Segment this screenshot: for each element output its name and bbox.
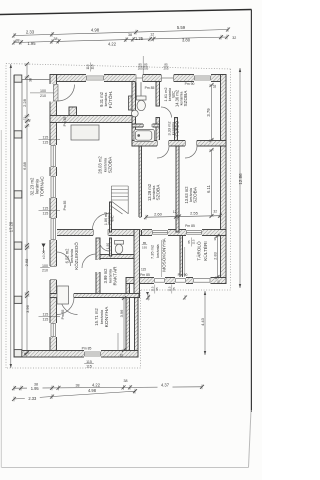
dim 3.79 line: [211, 85, 213, 140]
eaves bottom dotted line: [6, 367, 141, 369]
svg-text:5.59: 5.59: [177, 25, 186, 30]
eaves lower-right dotted line: [141, 289, 231, 291]
top door dim leader line: [142, 56, 144, 75]
svg-text:6.11: 6.11: [206, 184, 211, 193]
svg-text:115: 115: [86, 365, 92, 369]
svg-text:3.80: 3.80: [182, 38, 191, 43]
whitebox 2.33 bottom: [25, 395, 40, 400]
left inner dim line: [26, 64, 28, 353]
raktar west wall door gap: [96, 260, 101, 272]
right dim 12.86 line: [239, 68, 241, 288]
entrance door swing: [57, 252, 71, 266]
svg-text:115: 115: [191, 239, 195, 244]
svg-text:65: 65: [172, 287, 176, 291]
dim 2.83 line: [217, 236, 219, 277]
kitchen pantry cabinet: [57, 286, 69, 304]
eaves right dotted line: [230, 69, 232, 290]
svg-text:1.95: 1.95: [31, 386, 40, 391]
svg-text:3.33 m2: 3.33 m2: [167, 121, 172, 135]
exterior left wall: [50, 75, 57, 358]
porch column 1: [14, 75, 22, 82]
svg-text:115: 115: [43, 140, 49, 144]
south wall window mosokonyha1 gap: [154, 277, 165, 284]
svg-text:kerámia: kerámia: [69, 248, 74, 263]
svg-text:100: 100: [42, 264, 48, 268]
svg-text:14.36 m2: 14.36 m2: [175, 89, 180, 107]
svg-text:17.28: 17.28: [8, 221, 13, 232]
svg-text:Pm 90: Pm 90: [185, 82, 195, 86]
top wall door2 jambs: [162, 75, 174, 82]
svg-text:85: 85: [155, 287, 159, 291]
svg-text:1.61 m2: 1.61 m2: [163, 87, 168, 101]
door fraction 100 210: [30, 89, 54, 98]
bedroom divider wall: [176, 146, 179, 232]
svg-text:6.88: 6.88: [22, 161, 27, 170]
bottom dim row1 ticks: [12, 384, 204, 390]
middle wall window szoba1363 symbol: [187, 231, 202, 235]
entrance door fraction 100 210: [40, 264, 50, 273]
whitebox 1.95 bottom: [27, 386, 43, 391]
svg-text:Pm 85: Pm 85: [61, 309, 65, 319]
middle wall window szoba1329 gap: [152, 229, 168, 236]
svg-text:1.86 m2: 1.86 m2: [104, 212, 108, 225]
svg-text:Pm 85: Pm 85: [63, 116, 67, 126]
mosokonyha kulteri divider wall: [180, 236, 183, 278]
svg-text:SZOBA: SZOBA: [192, 186, 197, 203]
svg-text:38: 38: [213, 237, 217, 241]
kitchen door swing: [61, 298, 78, 315]
svg-text:TORNÁC: TORNÁC: [39, 176, 46, 197]
top wall window futoh symbol: [87, 76, 104, 80]
left wall futoh door gap: [50, 84, 58, 102]
left wall window4 symbol: [51, 324, 56, 337]
bedrooms north wall door1 gap: [157, 140, 169, 147]
porch top edge line: [14, 79, 50, 81]
svg-text:115: 115: [43, 212, 49, 216]
svg-text:TÁROLÓ: TÁROLÓ: [195, 241, 201, 261]
svg-text:2.33: 2.33: [28, 396, 37, 401]
svg-text:115: 115: [43, 313, 49, 317]
svg-text:SZOBA: SZOBA: [107, 156, 113, 173]
svg-text:115: 115: [141, 268, 146, 272]
svg-text:38: 38: [124, 379, 128, 383]
raktar west wall: [96, 238, 100, 298]
page left border: [0, 130, 2, 468]
left wall futoh door leaf: [54, 85, 59, 102]
top dim row2 line: [14, 37, 227, 43]
svg-text:2.83: 2.83: [214, 252, 218, 259]
svg-text:kerámia: kerámia: [156, 243, 160, 257]
top dim row1 line: [14, 30, 228, 36]
dim 4.43 line: [204, 291, 206, 355]
wc bathroom divider: [132, 124, 160, 127]
svg-text:115: 115: [150, 286, 154, 291]
top dim row2 ticks: [12, 35, 229, 45]
south wall window mosokonyha1 symbol: [155, 279, 165, 283]
svg-text:13.63 m2: 13.63 m2: [184, 186, 189, 204]
whitebox 4.37 bottom: [158, 384, 173, 389]
small wc toilet bowl: [115, 244, 123, 254]
PAGE-BORDERS: [0, 10, 252, 468]
top door fraction 85 205 b: [143, 63, 148, 71]
top wall window szoba14 symbol: [195, 76, 211, 80]
middle wall szoba28 door jambs: [94, 230, 109, 236]
porch outer edge line: [13, 75, 15, 357]
left wall window3 gap: [50, 218, 58, 240]
kitchen dim 3.96 ticks: [122, 296, 127, 352]
svg-text:6.02 m2: 6.02 m2: [65, 248, 70, 264]
top wall window futoh gap: [86, 74, 104, 82]
middle wall szoba28 door gap: [93, 229, 109, 236]
svg-text:kerámia: kerámia: [103, 92, 108, 107]
stair top line: [111, 185, 128, 187]
svg-text:SZOBA: SZOBA: [183, 90, 188, 107]
left wall window1 gap: [50, 145, 58, 167]
svg-text:38: 38: [76, 384, 80, 388]
svg-text:12: 12: [150, 33, 154, 37]
wc bath divider door gap: [143, 124, 153, 128]
svg-text:38: 38: [128, 33, 132, 37]
svg-text:±0.00: ±0.00: [42, 250, 46, 259]
szoba1329 west wall: [139, 146, 142, 236]
bottom dim row1 line: [14, 387, 202, 388]
small wc toilet tank: [115, 241, 124, 245]
svg-text:32: 32: [232, 36, 236, 40]
toilet room partition: [110, 238, 112, 256]
svg-text:2.68: 2.68: [24, 258, 29, 267]
svg-text:115: 115: [43, 136, 49, 140]
svg-text:2.55: 2.55: [190, 211, 199, 216]
svg-text:4.43: 4.43: [200, 317, 205, 326]
kitchen north wall door gap: [60, 293, 74, 298]
top wall door2 gap: [161, 74, 174, 82]
eaves top dotted line: [6, 64, 231, 70]
svg-text:kerámia: kerámia: [99, 309, 104, 324]
svg-text:KONYHA: KONYHA: [104, 306, 110, 327]
szoba1329 door swing: [157, 146, 169, 158]
stair tread 3: [111, 196, 128, 198]
svg-text:38: 38: [54, 37, 58, 41]
kitchen north wall door jambs: [61, 294, 74, 298]
kitchen door swing second leaf: [57, 298, 74, 315]
svg-text:2.60: 2.60: [154, 211, 163, 216]
bedrooms north wall: [132, 141, 226, 147]
svg-text:32: 32: [213, 85, 217, 89]
bedrooms north wall door1 jambs: [158, 141, 169, 146]
page right border lower faded: [249, 410, 252, 468]
raktar north wall: [100, 255, 134, 259]
fraction 115 85 south rotated: [150, 285, 158, 294]
left wall window4 gap: [50, 323, 58, 337]
middle wall window szoba1363 gap: [186, 229, 202, 236]
stair tread 4: [111, 199, 128, 201]
kitchen east wall outer face: [126, 284, 130, 358]
bottom-right exterior wall: [126, 278, 226, 284]
svg-text:205: 205: [163, 67, 168, 71]
top wall door1 gap: [136, 74, 144, 82]
svg-text:3.79: 3.79: [206, 108, 211, 117]
svg-text:115: 115: [43, 317, 49, 321]
svg-text:28.03 m2: 28.03 m2: [98, 156, 103, 174]
left outer dim arrows: [10, 64, 12, 368]
svg-text:2.28: 2.28: [22, 98, 27, 107]
svg-text:40: 40: [27, 119, 31, 123]
left wall window2 symbol: [51, 177, 56, 198]
svg-text:15.71 m2: 15.71 m2: [94, 308, 99, 326]
corridor east wall: [175, 118, 178, 141]
window fraction 115 left1: [39, 136, 61, 145]
svg-text:115: 115: [86, 360, 92, 364]
left outer dim 17.28 line: [10, 64, 12, 368]
kitchen east wall inner face: [135, 284, 139, 358]
svg-text:4.37: 4.37: [161, 383, 170, 388]
svg-text:115: 115: [86, 64, 90, 69]
stair break diagonal 2: [112, 207, 123, 215]
svg-text:205: 205: [143, 67, 148, 71]
fraction 115 65 south rotated: [167, 285, 175, 294]
middle horizontal wall: [50, 230, 226, 236]
page right border: [250, 10, 252, 413]
svg-text:115: 115: [43, 207, 49, 211]
top wall window szoba14 gap: [194, 74, 211, 82]
stair tread 1: [111, 189, 128, 191]
bottom dim row2 line: [14, 391, 135, 399]
EAVES dotted outline: [6, 64, 231, 369]
south wall window mosokonyha2 symbol: [176, 279, 186, 283]
dim 3.79 ticks: [209, 83, 214, 142]
dim 6.11 ticks: [209, 148, 214, 218]
bedroom dim row ticks: [144, 213, 222, 219]
kitchen dim 3.96 line: [123, 298, 125, 350]
left wall entrance door jambs: [50, 267, 57, 280]
top door2 fraction 85 205: [163, 63, 168, 71]
mosokonyha leader line 2: [184, 247, 186, 277]
svg-text:2.33: 2.33: [26, 29, 35, 34]
level marker pm000 triangle: [42, 244, 46, 248]
left wall window2 gap: [50, 176, 58, 198]
page top border: [0, 10, 252, 15]
top window fraction 115 rotated: [86, 63, 94, 72]
svg-text:4.22: 4.22: [108, 42, 117, 47]
svg-text:KÜLTÉRI: KÜLTÉRI: [202, 241, 208, 260]
dim 6.11 line: [211, 150, 213, 216]
svg-text:12: 12: [173, 210, 177, 214]
svg-text:85: 85: [143, 241, 147, 245]
wc bath divider door jambs: [144, 124, 153, 127]
level marker pm000 stem: [43, 248, 45, 254]
bedrooms north wall door2 jambs: [186, 141, 197, 146]
svg-text:Pm 85: Pm 85: [185, 224, 195, 228]
stair west rail: [110, 186, 112, 214]
porch column 3: [14, 191, 22, 198]
top door fraction 85 205 a: [138, 63, 143, 71]
stray tick a: [146, 295, 150, 300]
porch column 4: [14, 242, 22, 249]
svg-text:15: 15: [23, 117, 27, 121]
window fraction 115 left2: [39, 207, 61, 216]
svg-text:1.90: 1.90: [106, 243, 110, 249]
bedroom dim row line: [146, 216, 220, 218]
fraction 85 195 mosokonyha west: [142, 241, 148, 250]
futoh entry door swing: [58, 85, 75, 102]
left inner dim ticks: [25, 62, 30, 355]
right dim 12.86 arrows: [239, 68, 241, 288]
raktar door swing: [82, 254, 96, 268]
porch column 2: [14, 131, 22, 138]
top dim row1 ticks: [12, 27, 230, 38]
svg-text:9.31 m2: 9.31 m2: [99, 91, 104, 107]
duct east line: [140, 82, 142, 97]
corridor wc door swing: [161, 107, 172, 118]
szoba28 stove: [71, 125, 99, 140]
kitchen window fraction 115: [84, 360, 94, 369]
svg-text:13.29 m2: 13.29 m2: [147, 183, 152, 201]
svg-text:1.35: 1.35: [135, 36, 144, 41]
szoba1363 door swing: [185, 146, 197, 158]
wc toilet tank: [137, 96, 147, 100]
toilet room door swing: [100, 241, 110, 251]
stray tick b: [183, 295, 187, 300]
eaves kitchen-east dotted line: [140, 290, 142, 368]
exterior right wall: [221, 75, 227, 284]
svg-text:Pm 85: Pm 85: [63, 200, 67, 210]
stair tread 2: [111, 192, 128, 194]
svg-text:205: 205: [138, 67, 143, 71]
szoba28 door swing: [93, 214, 109, 230]
stair east rail: [127, 186, 129, 214]
svg-text:3.96: 3.96: [119, 309, 124, 318]
svg-text:85: 85: [187, 240, 191, 244]
bathtub: [134, 130, 155, 142]
raktar east wall: [134, 230, 140, 298]
duct west line: [135, 82, 137, 97]
svg-text:32: 32: [213, 210, 217, 214]
window fraction 115 left3: [39, 313, 61, 322]
svg-text:210: 210: [40, 94, 46, 98]
fraction 85 115 mosokonyha rotated: [187, 238, 195, 247]
left wall window1 symbol: [51, 146, 56, 167]
svg-text:195: 195: [142, 245, 147, 249]
szoba1329 door jambs: [139, 218, 141, 230]
svg-text:32: 32: [120, 354, 124, 358]
kitchen counter line: [117, 333, 119, 351]
mosokonyha leader line 1: [161, 240, 163, 277]
porch inner edge line: [21, 80, 23, 351]
kitchen north wall: [50, 294, 139, 298]
dim 4.43 arrows: [204, 291, 206, 355]
futoh chimney pillar: [69, 107, 77, 116]
stair nook wall stub: [110, 202, 112, 232]
kitchen bottom wall window gap: [84, 350, 101, 358]
left wall entrance door gap: [50, 266, 58, 280]
svg-text:4.22: 4.22: [92, 382, 101, 387]
svg-text:Pm 85: Pm 85: [145, 86, 155, 90]
svg-text:kerámia: kerámia: [108, 268, 113, 283]
svg-text:1.95: 1.95: [28, 41, 37, 46]
bottom dim row2 ticks: [12, 389, 137, 402]
dim 2.83 ticks: [215, 234, 220, 279]
svg-text:MOSÓKONYHA: MOSÓKONYHA: [161, 237, 167, 271]
svg-text:210: 210: [42, 269, 48, 273]
svg-text:Pm 85: Pm 85: [82, 347, 92, 351]
svg-text:12.86: 12.86: [238, 173, 243, 185]
svg-text:115: 115: [167, 286, 171, 291]
south wall kulteri door gap: [193, 277, 211, 284]
duct bottom line: [132, 96, 141, 98]
south wall kulteri door symbol: [194, 279, 211, 283]
page bottom border: [2, 467, 249, 469]
szoba28 chimney pilaster: [129, 96, 133, 110]
svg-text:kerámia: kerámia: [102, 157, 107, 172]
svg-text:38: 38: [16, 38, 20, 42]
svg-text:kerámia: kerámia: [171, 121, 175, 135]
top wall door1 jambs: [136, 75, 143, 82]
svg-text:Pm 85: Pm 85: [140, 273, 150, 277]
bedrooms north wall door2 gap: [185, 140, 197, 147]
exterior top wall: [50, 75, 226, 82]
svg-text:100: 100: [40, 89, 46, 93]
svg-text:32.23 m2: 32.23 m2: [30, 177, 35, 196]
svg-text:4.98: 4.98: [91, 28, 100, 33]
svg-text:38: 38: [24, 353, 28, 357]
service column west wall: [132, 82, 136, 147]
south wall window mosokonyha2 gap: [175, 277, 186, 284]
left wall window3 symbol: [51, 219, 56, 240]
eaves left dotted line: [5, 64, 7, 369]
svg-text:3.96: 3.96: [25, 304, 30, 313]
wc toilet bowl: [137, 100, 145, 110]
bathtub faucet: [138, 135, 140, 137]
bathtub inner: [135, 131, 152, 140]
kitchen bottom wall: [14, 351, 138, 358]
svg-text:kerámia: kerámia: [168, 87, 172, 101]
svg-text:32: 32: [217, 280, 221, 284]
futoh south wall: [50, 116, 136, 123]
svg-text:3.99 m2: 3.99 m2: [103, 268, 108, 284]
kitchen bottom wall window symbol: [85, 352, 101, 356]
stair break diagonal: [112, 202, 128, 214]
porch column 6: [14, 350, 22, 357]
porch column 5: [14, 296, 22, 303]
svg-text:Pm 90: Pm 90: [178, 273, 188, 277]
svg-text:38: 38: [29, 78, 33, 82]
svg-text:SZOBA: SZOBA: [155, 184, 160, 201]
svg-text:7.35 m2: 7.35 m2: [150, 245, 155, 259]
middle wall window szoba1329 symbol: [153, 231, 168, 235]
svg-text:115: 115: [90, 64, 94, 69]
level marker m002 triangle: [146, 292, 149, 295]
bathroom east wall lower: [156, 118, 160, 141]
wc east wall upper: [156, 82, 160, 107]
szoba1329 west wall door gap: [139, 217, 143, 230]
svg-text:4.98: 4.98: [88, 388, 97, 393]
svg-text:kerámia: kerámia: [34, 178, 39, 193]
wc washbasin: [131, 110, 138, 117]
